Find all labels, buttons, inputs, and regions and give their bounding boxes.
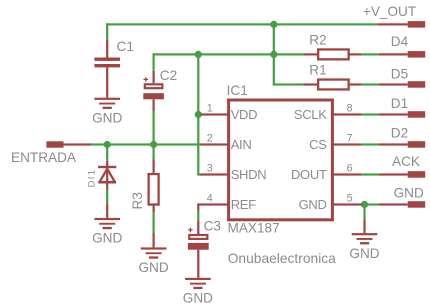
- resistor R2: [303, 49, 361, 59]
- svg-text:+V_OUT: +V_OUT: [363, 4, 416, 19]
- diode D1: [98, 161, 116, 190]
- ground under C3: [183, 278, 213, 306]
- wire REF drop: [197, 210, 199, 220]
- junction pin5 GND: [361, 201, 368, 208]
- svg-text:GND: GND: [394, 186, 424, 201]
- svg-text:D1: D1: [391, 96, 408, 111]
- wire C2 bottom link: [153, 112, 155, 145]
- pad +V_OUT: [377, 21, 425, 28]
- wire net +V top: [106, 23, 377, 39]
- wire pin1/pin3 vertical: [197, 54, 201, 175]
- IC1 MAX187 box: [229, 100, 333, 220]
- pin stub 2 AIN: [201, 143, 229, 145]
- pad ENTRADA: [46, 141, 91, 147]
- wire pin5 out link: [362, 203, 379, 205]
- svg-text:R2: R2: [309, 33, 326, 48]
- junction top wire: [270, 21, 277, 28]
- ground under R3: [138, 234, 168, 276]
- pad D2: [379, 141, 425, 148]
- wire R3 top link: [153, 145, 155, 160]
- svg-text:5: 5: [347, 193, 353, 205]
- wire R3 bottom link: [153, 212, 155, 233]
- pin stub 7 CS: [332, 143, 362, 145]
- svg-text:1: 1: [207, 103, 213, 115]
- wire R1 out link: [362, 83, 379, 85]
- wire R2 out link: [362, 53, 379, 55]
- svg-text:Onubaelectronica: Onubaelectronica: [228, 251, 336, 266]
- svg-text:C2: C2: [160, 68, 177, 83]
- svg-text:VDD: VDD: [231, 107, 258, 122]
- svg-text:8: 8: [347, 103, 353, 115]
- svg-text:SCLK: SCLK: [294, 107, 327, 122]
- capacitor C3 polarized: [188, 220, 209, 278]
- junction VDD row: [270, 51, 277, 58]
- svg-text:GND: GND: [92, 110, 122, 125]
- svg-text:DI1: DI1: [86, 169, 97, 188]
- pin stub 8 SCLK: [332, 113, 362, 115]
- svg-text:IC1: IC1: [227, 83, 248, 98]
- wire pin8 out link: [362, 113, 379, 115]
- svg-text:D2: D2: [391, 126, 408, 141]
- junction ENTRADA/C2/R3: [150, 141, 157, 148]
- pad ACK: [379, 171, 425, 178]
- wire VDD to R1 vertical: [273, 23, 304, 85]
- pin stub 1 VDD: [201, 113, 229, 115]
- pin stub 4 REF: [197, 203, 229, 210]
- junction VDD row/pin1: [195, 51, 202, 58]
- svg-text:4: 4: [207, 193, 213, 205]
- svg-text:REF: REF: [231, 197, 256, 212]
- resistor R1: [303, 80, 361, 90]
- svg-text:GND: GND: [183, 291, 213, 306]
- resistor R3: [149, 160, 159, 213]
- pad D4: [379, 51, 425, 58]
- wire pin6 out link: [362, 173, 379, 175]
- wire pin5 GND drop: [363, 205, 365, 220]
- svg-text:DOUT: DOUT: [291, 167, 327, 182]
- pad GND right: [379, 201, 425, 208]
- svg-text:D4: D4: [391, 34, 409, 49]
- svg-text:SHDN: SHDN: [231, 167, 267, 182]
- ground under C1: [92, 98, 122, 126]
- svg-text:C3: C3: [204, 219, 221, 234]
- svg-text:R1: R1: [309, 62, 326, 77]
- pin stub 5 GND: [332, 203, 362, 205]
- wire pin7 out link: [362, 143, 379, 145]
- svg-text:D5: D5: [391, 66, 408, 81]
- wire net ENTRADA: [91, 143, 201, 145]
- junction ENTRADA/D1: [104, 141, 111, 148]
- pad D5: [379, 81, 425, 88]
- svg-text:AIN: AIN: [231, 137, 252, 152]
- ground under D1: [92, 204, 122, 246]
- junction pin1: [195, 111, 202, 118]
- svg-text:CS: CS: [309, 137, 327, 152]
- pad D1: [379, 111, 425, 118]
- wire D1 top link: [106, 145, 108, 161]
- svg-text:7: 7: [347, 133, 353, 145]
- svg-text:ENTRADA: ENTRADA: [11, 150, 77, 165]
- capacitor C1: [94, 39, 120, 97]
- svg-text:GND: GND: [138, 260, 168, 275]
- pin stub 3 SHDN: [201, 173, 229, 175]
- capacitor C2 polarized: [143, 71, 164, 112]
- svg-text:GND: GND: [299, 197, 327, 212]
- svg-text:C1: C1: [117, 39, 134, 54]
- ground at pin5: [349, 219, 379, 261]
- wire D1 bottom link: [106, 190, 108, 204]
- wire net VDD row: [153, 53, 304, 71]
- svg-text:R3: R3: [130, 192, 145, 209]
- svg-text:3: 3: [207, 163, 213, 175]
- svg-text:6: 6: [347, 163, 353, 175]
- svg-text:MAX187: MAX187: [228, 221, 280, 236]
- pin stub 6 DOUT: [332, 173, 362, 175]
- svg-text:ACK: ACK: [392, 154, 420, 169]
- svg-text:2: 2: [207, 133, 213, 145]
- svg-text:GND: GND: [349, 246, 379, 261]
- svg-text:GND: GND: [92, 231, 122, 246]
